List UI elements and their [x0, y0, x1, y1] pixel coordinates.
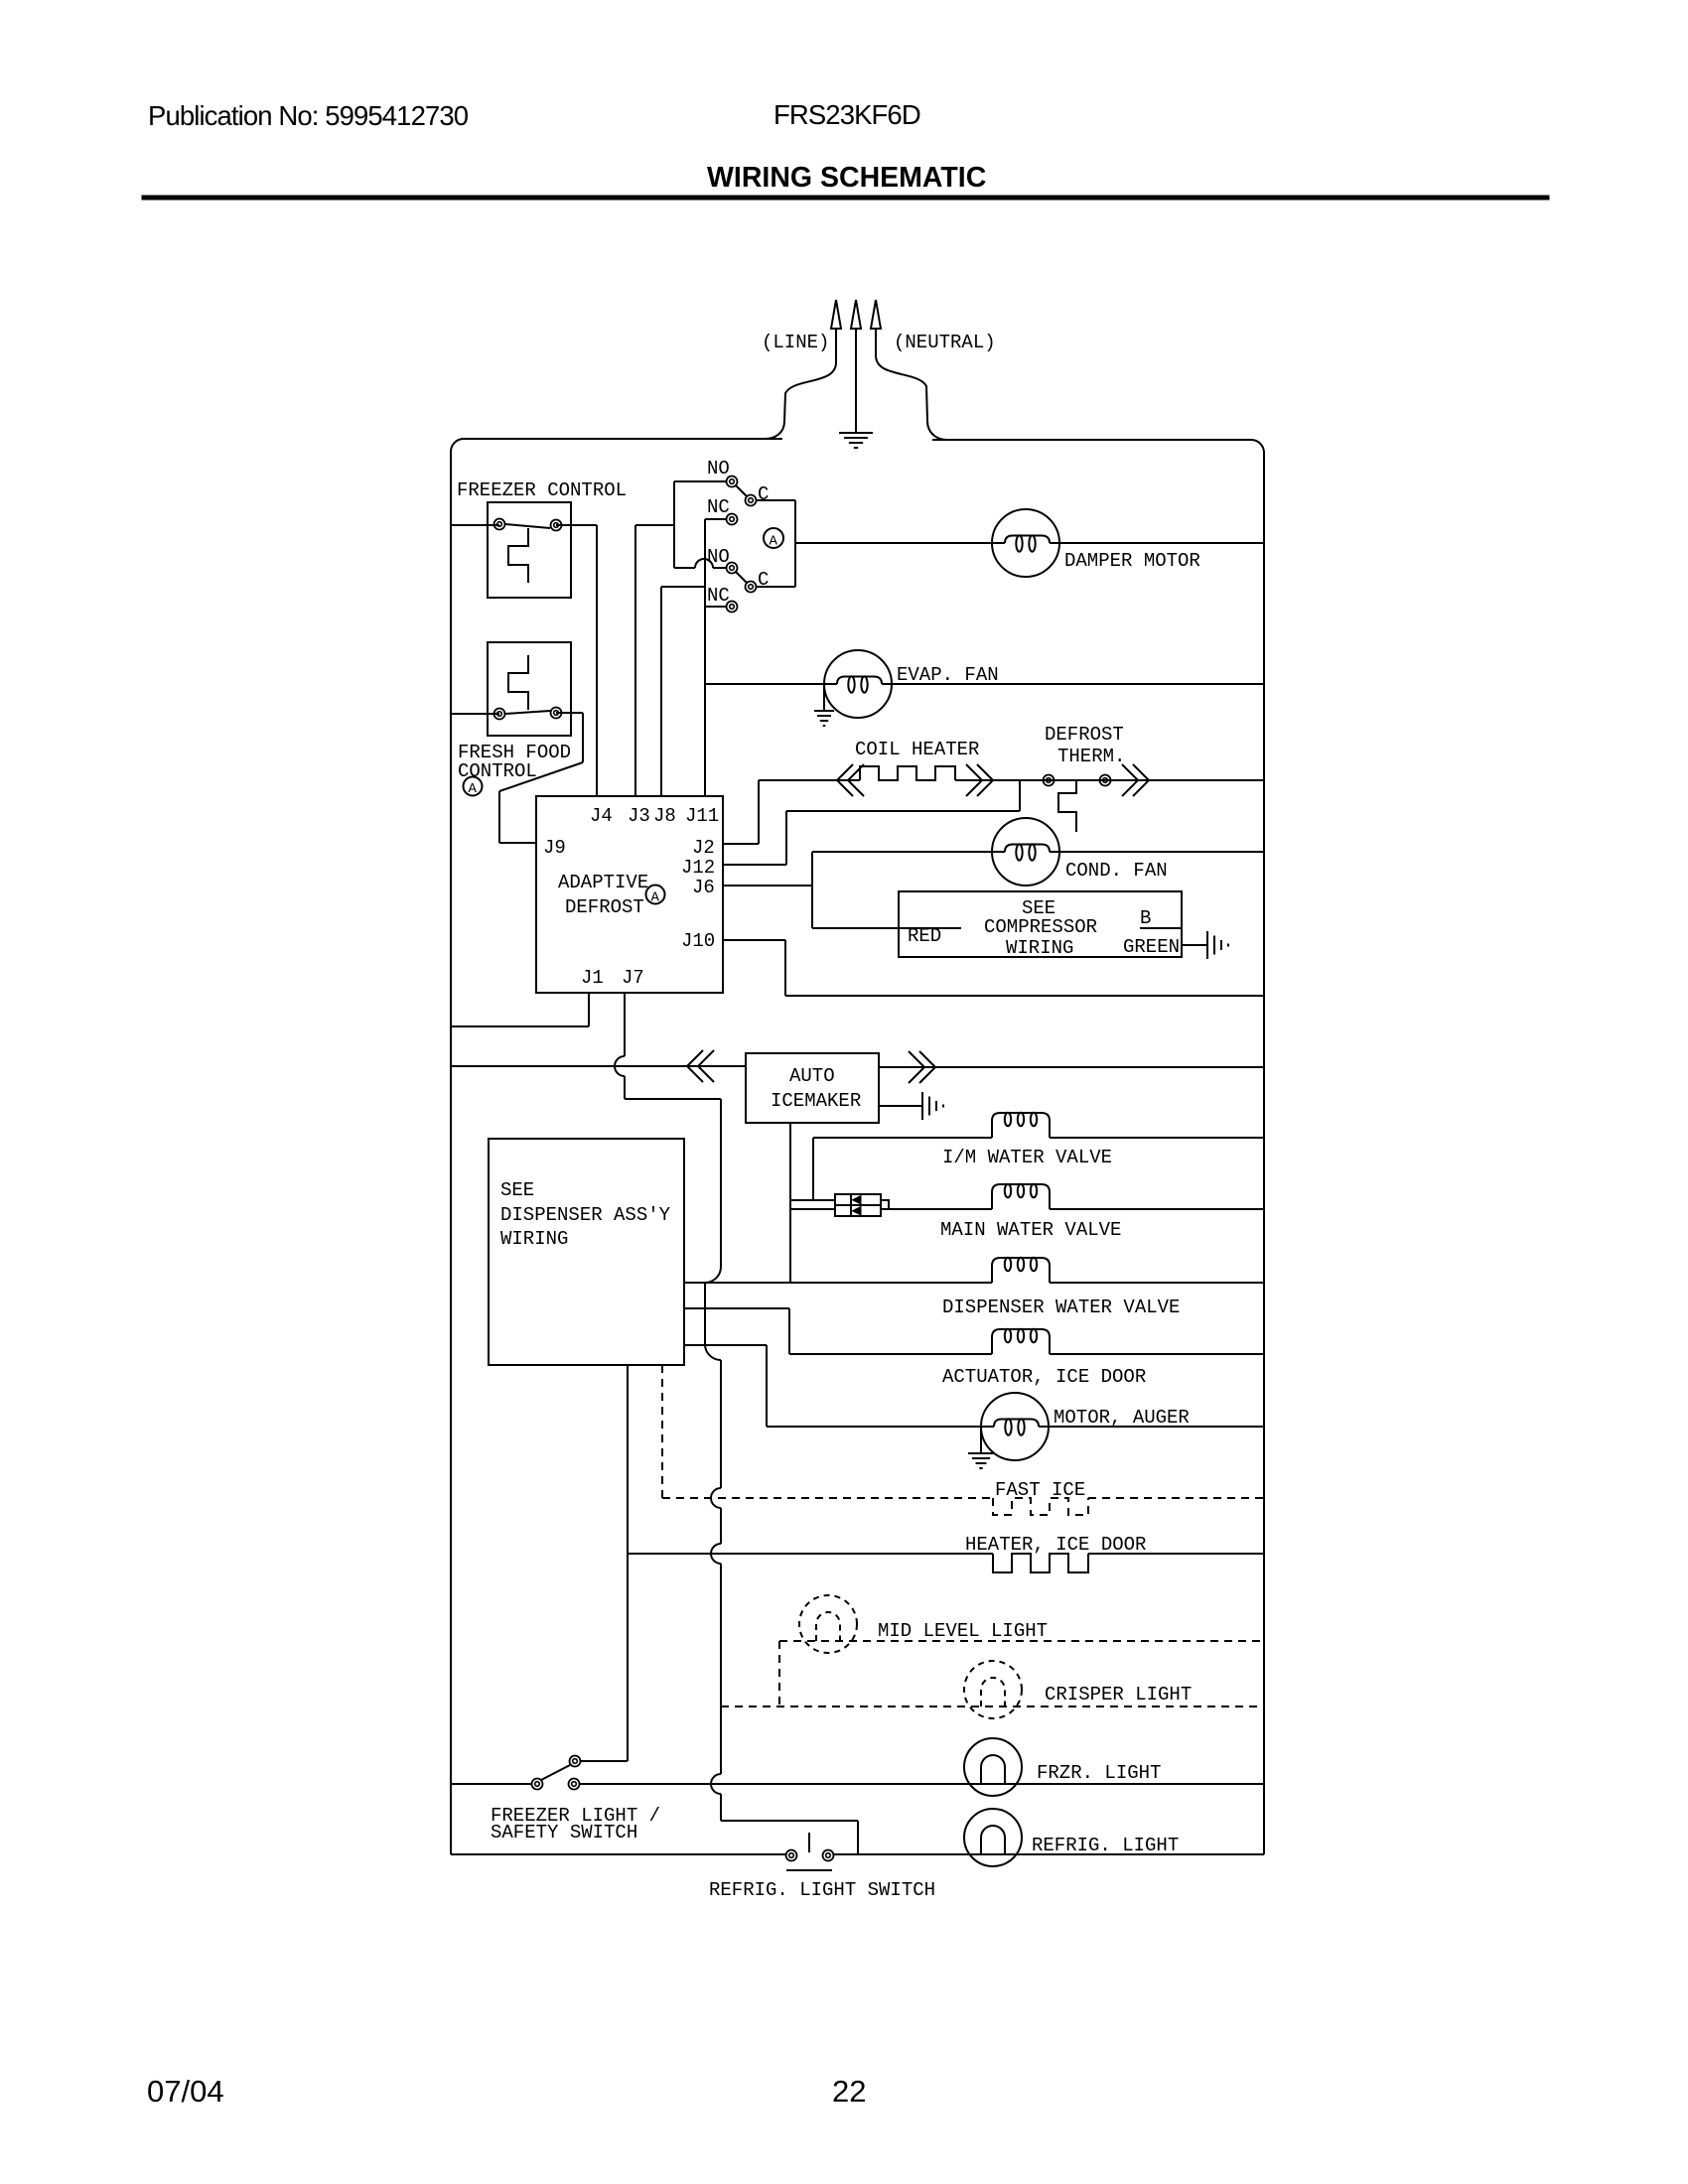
- terminal freezer control left: [494, 519, 505, 530]
- coil I/M water valve: [992, 1113, 1050, 1138]
- ground compressor chassis: [1207, 931, 1228, 959]
- wire NC lower to NC bus: [705, 606, 726, 608]
- svg-text:J9: J9: [543, 837, 566, 859]
- label MOTOR, AUGER: [1054, 1407, 1190, 1429]
- label GREEN: [1123, 936, 1180, 958]
- svg-text:J6: J6: [692, 877, 715, 898]
- title WIRING SCHEMATIC: [707, 162, 986, 194]
- terminal freezer control right: [551, 520, 562, 531]
- label FRESH FOOD CONTROL: [458, 742, 571, 782]
- svg-text:WIRING: WIRING: [500, 1228, 568, 1250]
- label (NEUTRAL): [894, 332, 996, 353]
- label NO lower switch: [707, 546, 730, 568]
- svg-text:NC: NC: [707, 585, 730, 607]
- wire J12 to coil heater junction: [723, 811, 1020, 865]
- thermostat zigzag freezer control: [508, 528, 528, 583]
- wire icemaker to neutral bus: [879, 1066, 1264, 1068]
- wire left bus to freezer control: [451, 524, 499, 526]
- ground evap fan: [814, 711, 834, 726]
- fresh food control box: [488, 642, 571, 736]
- label J9: [543, 837, 566, 859]
- switch blade fresh food: [505, 711, 550, 714]
- svg-text:WIRING: WIRING: [1006, 937, 1073, 959]
- terminal fresh food right: [551, 708, 562, 719]
- wire left bus to icemaker: [451, 1065, 746, 1067]
- wire J6 to compressor tie: [723, 885, 812, 887]
- svg-text:A: A: [770, 534, 778, 550]
- label I/M WATER VALVE: [942, 1147, 1112, 1168]
- wire outer box top-right corner: [1251, 440, 1264, 453]
- terminal C upper: [746, 495, 757, 506]
- svg-text:MID LEVEL LIGHT: MID LEVEL LIGHT: [878, 1620, 1048, 1642]
- compressor box: [899, 891, 1182, 957]
- symbol circle-A fresh food: [464, 777, 483, 798]
- svg-text:GREEN: GREEN: [1123, 936, 1180, 958]
- terminal defrost thermostat right: [1100, 775, 1111, 786]
- terminal NO lower: [727, 563, 738, 574]
- coil main water valve: [992, 1184, 1050, 1209]
- wire J7 drop with hop: [615, 993, 721, 1099]
- thermostat zigzag fresh food: [508, 655, 528, 710]
- terminal defrost thermostat left: [1044, 775, 1055, 786]
- label MAIN WATER VALVE: [940, 1219, 1121, 1241]
- svg-text:ADAPTIVE: ADAPTIVE: [558, 872, 648, 893]
- svg-text:THERM.: THERM.: [1057, 746, 1125, 767]
- wire outer box left edge: [450, 452, 452, 1854]
- svg-text:J7: J7: [622, 967, 644, 989]
- label NC upper switch: [707, 496, 730, 518]
- svg-text:(NEUTRAL): (NEUTRAL): [894, 332, 996, 353]
- dispenser assembly box: [489, 1139, 684, 1365]
- svg-text:(LINE): (LINE): [762, 332, 829, 353]
- svg-text:NO: NO: [707, 546, 730, 568]
- svg-text:REFRIG. LIGHT SWITCH: REFRIG. LIGHT SWITCH: [709, 1879, 935, 1901]
- terminal NO upper: [727, 477, 738, 487]
- svg-text:COIL HEATER: COIL HEATER: [855, 739, 979, 760]
- heater element FAST ICE dashed: [993, 1498, 1088, 1515]
- wire outer box top edge left of plug: [464, 438, 782, 440]
- label (LINE): [762, 332, 829, 353]
- terminal NC upper: [727, 514, 738, 525]
- svg-text:EVAP. FAN: EVAP. FAN: [897, 664, 999, 686]
- svg-text:FRS23KF6D: FRS23KF6D: [774, 99, 920, 130]
- wire safety switch to frzr light: [580, 1783, 1264, 1785]
- wire I/M water valve: [813, 1137, 992, 1139]
- label SEE DISPENSER ASSY WIRING: [500, 1179, 671, 1250]
- svg-text:CRISPER LIGHT: CRISPER LIGHT: [1045, 1684, 1192, 1706]
- wire outer box top edge right of plug: [932, 439, 1251, 441]
- svg-text:J4: J4: [590, 805, 613, 827]
- ground icemaker chassis: [922, 1092, 943, 1120]
- switch blade upper: [736, 485, 747, 496]
- wire cond fan feed: [812, 851, 1005, 853]
- wire actuator ice door: [789, 1353, 992, 1355]
- svg-text:J12: J12: [681, 857, 715, 879]
- refrig light switch plunger: [786, 1833, 832, 1870]
- svg-text:J11: J11: [685, 805, 719, 827]
- label SEE COMPRESSOR WIRING: [984, 897, 1097, 959]
- label DAMPER MOTOR: [1064, 550, 1200, 572]
- label FREEZER LIGHT / SAFETY SWITCH: [491, 1805, 660, 1843]
- auto icemaker box: [746, 1053, 879, 1123]
- label FAST ICE: [995, 1479, 1085, 1501]
- svg-text:SAFETY SWITCH: SAFETY SWITCH: [491, 1822, 637, 1843]
- terminal C lower: [746, 582, 757, 593]
- svg-text:J2: J2: [692, 837, 715, 859]
- symbol circle-A adaptive defrost: [646, 886, 665, 906]
- label J4: [590, 805, 613, 827]
- wire auger motor to neutral bus: [1039, 1426, 1264, 1428]
- svg-text:DEFROST: DEFROST: [565, 896, 644, 918]
- svg-text:DISPENSER ASS'Y: DISPENSER ASS'Y: [500, 1204, 671, 1226]
- svg-text:HEATER, ICE DOOR: HEATER, ICE DOOR: [965, 1534, 1146, 1556]
- label FREEZER CONTROL: [457, 479, 627, 501]
- svg-text:Publication No: 5995412730: Publication No: 5995412730: [148, 100, 469, 131]
- svg-text:B: B: [1140, 907, 1151, 929]
- wire I/M valve riser: [812, 1138, 814, 1200]
- label J7: [622, 967, 644, 989]
- label MID LEVEL LIGHT: [878, 1620, 1048, 1642]
- label B: [1140, 907, 1151, 929]
- terminal safety switch right: [569, 1779, 580, 1790]
- auger motor: [981, 1393, 1049, 1460]
- label C upper switch: [758, 483, 769, 505]
- wire freezer control to J4 drop: [556, 525, 597, 796]
- wire fresh food to J9: [499, 713, 583, 843]
- wire outer box bottom edge left segment: [451, 1853, 785, 1855]
- svg-text:NO: NO: [707, 458, 730, 479]
- label J2: [692, 837, 715, 859]
- switch blade safety switch: [541, 1765, 570, 1780]
- wire I/M water valve to neutral bus: [1050, 1137, 1264, 1139]
- wire heater ice door left: [628, 1365, 993, 1761]
- wire dispenser water valve to neutral bus: [1050, 1282, 1264, 1284]
- label COIL HEATER: [855, 739, 979, 760]
- svg-text:22: 22: [832, 2074, 866, 2109]
- svg-text:DEFROST: DEFROST: [1045, 724, 1124, 746]
- label HEATER, ICE DOOR: [965, 1534, 1146, 1556]
- connector chevrons right of coil heater: [966, 764, 993, 796]
- label NO upper switch: [707, 458, 730, 479]
- wire J7 feed lower: [711, 1360, 721, 1706]
- wire outer box bottom edge right segment: [834, 1853, 1264, 1855]
- svg-text:RED: RED: [908, 925, 941, 947]
- lamp FRZR LIGHT: [964, 1738, 1022, 1796]
- svg-text:REFRIG. LIGHT: REFRIG. LIGHT: [1032, 1835, 1179, 1856]
- wire NO common vertical: [674, 481, 726, 568]
- wire safety switch upper contact: [581, 1760, 628, 1762]
- heater element COIL HEATER: [860, 766, 955, 780]
- svg-text:CONTROL: CONTROL: [458, 760, 537, 782]
- ground plug earth symbol: [839, 433, 873, 448]
- wire NC bus vertical to J11: [704, 519, 706, 796]
- svg-text:ICEMAKER: ICEMAKER: [771, 1090, 861, 1112]
- title rule: [142, 196, 1549, 200]
- terminal safety switch upper: [570, 1756, 581, 1767]
- label RED: [908, 925, 941, 947]
- svg-text:COMPRESSOR: COMPRESSOR: [984, 916, 1097, 938]
- evap fan motor: [824, 650, 892, 718]
- connector chevrons icemaker left: [687, 1050, 714, 1082]
- wire outer box right edge (neutral bus): [1263, 453, 1265, 1854]
- svg-text:J8: J8: [653, 805, 676, 827]
- wire RED into compressor box: [812, 927, 961, 929]
- coil dispenser water valve: [992, 1258, 1050, 1283]
- label J1: [581, 967, 604, 989]
- label ACTUATOR, ICE DOOR: [942, 1366, 1146, 1388]
- svg-text:J3: J3: [628, 805, 650, 827]
- terminal refrig switch left: [786, 1850, 797, 1861]
- cond fan motor: [992, 818, 1059, 886]
- wire diode row1: [790, 1199, 835, 1201]
- header publication number: [148, 100, 469, 131]
- header model number: [774, 99, 920, 130]
- terminal safety switch left: [532, 1779, 543, 1790]
- wire icemaker bottom drop: [789, 1123, 791, 1283]
- footer date: [147, 2074, 224, 2109]
- svg-text:MAIN WATER VALVE: MAIN WATER VALVE: [940, 1219, 1121, 1241]
- svg-text:J10: J10: [681, 930, 715, 952]
- connector chevrons icemaker right: [909, 1051, 935, 1083]
- plug line prong: [765, 300, 841, 439]
- svg-text:AUTO: AUTO: [789, 1065, 835, 1087]
- wire heater ice door right: [1088, 1553, 1264, 1555]
- svg-text:A: A: [469, 781, 478, 797]
- label COND. FAN: [1065, 860, 1168, 882]
- svg-text:WIRING SCHEMATIC: WIRING SCHEMATIC: [707, 162, 986, 194]
- wire evap fan ground drop: [823, 684, 825, 711]
- wire J7 feed to refrig circuit: [711, 1706, 858, 1854]
- heater element HEATER ICE DOOR: [993, 1554, 1088, 1572]
- svg-text:FAST ICE: FAST ICE: [995, 1479, 1085, 1501]
- wire J7 jog lower arc: [705, 1344, 721, 1360]
- wire crisper light dashed: [721, 1706, 1264, 1707]
- freezer control box: [488, 502, 571, 598]
- wire outer box top-left corner: [451, 439, 464, 452]
- wire J10 to neutral bus: [723, 940, 1264, 996]
- wire NO lower feed with hop: [674, 559, 726, 568]
- svg-text:MOTOR, AUGER: MOTOR, AUGER: [1054, 1407, 1190, 1429]
- terminal refrig switch right: [823, 1850, 834, 1861]
- wire damper switch to damper motor: [795, 542, 1005, 544]
- label J11: [685, 805, 719, 827]
- svg-text:C: C: [758, 483, 769, 505]
- label ADAPTIVE: [558, 872, 648, 893]
- label CRISPER LIGHT: [1045, 1684, 1192, 1706]
- switch blade lower: [736, 572, 747, 583]
- label NC lower switch: [707, 585, 730, 607]
- label J12: [681, 857, 715, 879]
- diode block: [835, 1194, 889, 1216]
- svg-text:07/04: 07/04: [147, 2074, 224, 2109]
- wire actuator to neutral bus: [1050, 1353, 1264, 1355]
- wire NC bus branch to J8: [661, 587, 705, 796]
- symbol circle-A damper switch: [764, 528, 783, 550]
- damper switch box right side: [757, 500, 795, 587]
- wire actuator feed: [684, 1308, 789, 1354]
- label J10: [681, 930, 715, 952]
- wire J11 tee to evap fan: [705, 683, 837, 685]
- label DEFROST THERM.: [1045, 724, 1125, 767]
- svg-text:A: A: [651, 890, 660, 906]
- wire J3 link: [635, 525, 674, 796]
- label J8: [653, 805, 676, 827]
- wire coil heater to defrost thermostat: [955, 779, 1264, 781]
- lamp CRISPER LIGHT: [964, 1661, 1022, 1718]
- label FRZR. LIGHT: [1037, 1762, 1161, 1784]
- label J3: [628, 805, 650, 827]
- wire GREEN to chassis ground: [1182, 944, 1207, 946]
- wire B stub: [1140, 927, 1182, 929]
- svg-text:SEE: SEE: [500, 1179, 534, 1201]
- defrost thermostat zigzag: [1058, 780, 1076, 832]
- label AUTO ICEMAKER: [771, 1065, 861, 1112]
- wire evap fan to neutral bus: [882, 683, 1264, 685]
- wire J7 feed mid: [704, 1283, 706, 1344]
- plug neutral prong: [871, 300, 947, 440]
- lamp REFRIG LIGHT: [964, 1809, 1022, 1866]
- label REFRIG. LIGHT SWITCH: [709, 1879, 935, 1901]
- wire fast ice dashed right: [1088, 1497, 1264, 1499]
- connector chevrons right of defrost thermostat: [1122, 764, 1149, 796]
- svg-text:FREEZER CONTROL: FREEZER CONTROL: [457, 479, 627, 501]
- wire J2 to coil heater: [723, 780, 759, 844]
- wire auger feed: [684, 1345, 767, 1427]
- lamp MID LEVEL LIGHT: [799, 1595, 857, 1653]
- label C lower switch: [758, 569, 769, 591]
- wire fast ice dashed left: [662, 1365, 993, 1498]
- label J6: [692, 877, 715, 898]
- wire NC upper to NC bus: [705, 518, 726, 520]
- label DEFROST: [565, 896, 644, 918]
- wire compressor tie vertical: [811, 852, 813, 928]
- wire J1 to left bus: [451, 993, 589, 1026]
- wire auger ground drop: [980, 1427, 982, 1453]
- svg-text:J1: J1: [581, 967, 604, 989]
- wire coil heater left segment: [759, 779, 860, 781]
- label EVAP. FAN: [897, 664, 999, 686]
- wire left bus to fresh food control: [451, 713, 499, 715]
- svg-text:NC: NC: [707, 496, 730, 518]
- wire J12 junction drop: [1019, 780, 1021, 811]
- wire dispenser water valve: [684, 1282, 992, 1284]
- svg-text:I/M WATER VALVE: I/M WATER VALVE: [942, 1147, 1112, 1168]
- svg-text:COND. FAN: COND. FAN: [1065, 860, 1168, 882]
- wire J7 feed upper: [720, 1099, 722, 1267]
- ground auger motor: [968, 1453, 994, 1468]
- switch blade freezer control: [505, 524, 550, 528]
- connector chevrons left of coil heater: [837, 764, 864, 796]
- footer page number: [832, 2074, 866, 2109]
- wire main water valve to neutral bus: [1050, 1208, 1264, 1210]
- label DISPENSER WATER VALVE: [942, 1297, 1180, 1318]
- svg-text:FRZR. LIGHT: FRZR. LIGHT: [1037, 1762, 1161, 1784]
- wire main water valve: [889, 1208, 992, 1210]
- wire damper motor to neutral bus: [1050, 542, 1264, 544]
- svg-text:DISPENSER WATER VALVE: DISPENSER WATER VALVE: [942, 1297, 1180, 1318]
- adaptive defrost box: [536, 796, 723, 993]
- plug ground prong: [851, 300, 861, 433]
- terminal NC lower: [727, 602, 738, 613]
- coil actuator ice door: [992, 1329, 1050, 1354]
- wire auger motor left: [767, 1426, 994, 1428]
- wire cond fan to neutral bus: [1050, 851, 1264, 853]
- label REFRIG. LIGHT: [1032, 1835, 1179, 1856]
- damper motor: [992, 509, 1059, 577]
- wire mid level light dashed: [779, 1641, 1264, 1706]
- wire icemaker ground stub: [879, 1105, 922, 1107]
- svg-text:ACTUATOR, ICE DOOR: ACTUATOR, ICE DOOR: [942, 1366, 1146, 1388]
- wire diode row2: [790, 1208, 835, 1210]
- terminal fresh food left: [494, 709, 505, 720]
- wire left bus to safety switch: [451, 1783, 531, 1785]
- svg-text:DAMPER MOTOR: DAMPER MOTOR: [1064, 550, 1200, 572]
- wire J7 jog upper arc: [705, 1267, 721, 1283]
